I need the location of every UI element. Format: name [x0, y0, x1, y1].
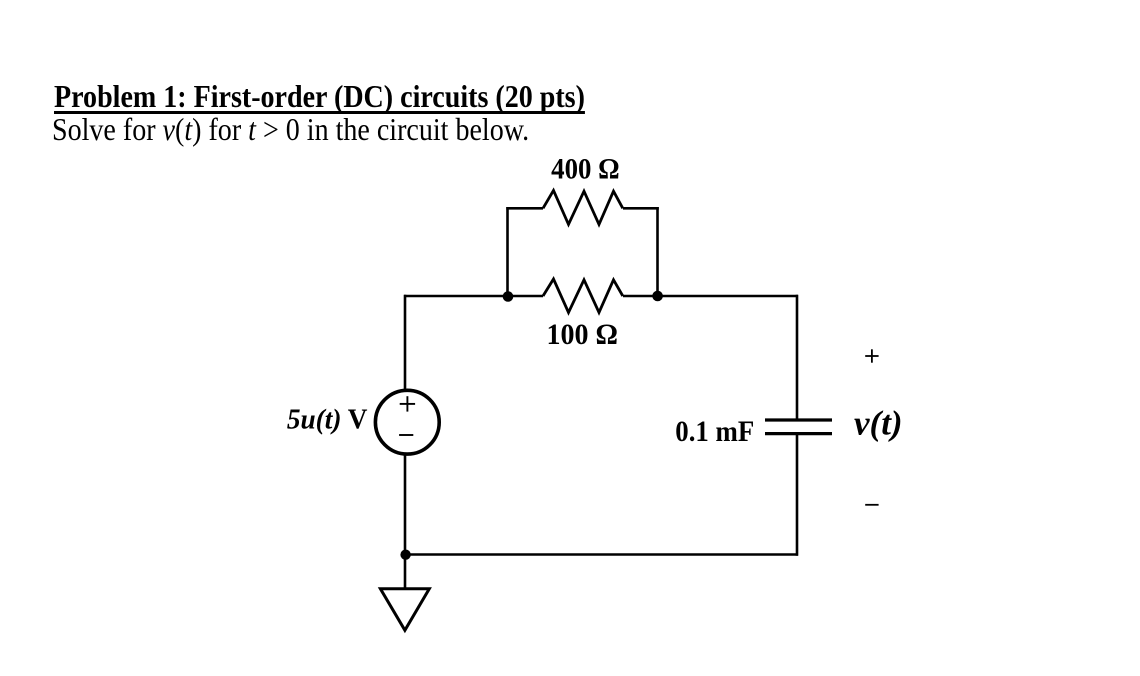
wire right branch lower vertical: [796, 434, 799, 556]
wire bottom horizontal: [405, 553, 798, 556]
svg-text:100 Ω: 100 Ω: [546, 318, 618, 351]
svg-text:v(t): v(t): [854, 404, 903, 443]
voltage source V1 minus sign: [399, 434, 413, 436]
svg-text:400 Ω: 400 Ω: [551, 153, 620, 186]
node A junction dot: [503, 291, 514, 302]
label plus polarity at capacitor: [865, 349, 878, 362]
wire left branch upper vertical: [404, 295, 407, 391]
voltage source V1 plus sign: [400, 396, 415, 411]
problem statement: [52, 113, 529, 145]
voltage source V1 circle: [375, 390, 439, 454]
wire left branch lower vertical down to ground: [404, 454, 407, 588]
node C junction dot (bottom left): [400, 550, 410, 560]
wire parallel-loop top-right horizontal: [623, 207, 659, 210]
wire parallel-loop left riser: [506, 207, 509, 297]
wire parallel-loop right riser: [656, 207, 659, 297]
label minus polarity at capacitor: [865, 504, 878, 506]
wire top horizontal right segment (node B): [623, 295, 798, 298]
wire right branch upper vertical: [796, 295, 799, 420]
svg-text:0.1 mF: 0.1 mF: [675, 415, 754, 448]
resistor R1 400 ohm zigzag: [543, 190, 623, 224]
capacitor C1 plates: [765, 420, 832, 434]
wire parallel-loop top-left horizontal: [506, 207, 543, 210]
document title: [54, 80, 585, 112]
svg-text:5u(t) V: 5u(t) V: [287, 405, 368, 436]
wire top horizontal left segment (node A): [404, 295, 543, 298]
resistor R2 100 ohm zigzag: [543, 279, 623, 313]
node B junction dot: [652, 291, 663, 302]
ground symbol: [380, 589, 429, 631]
